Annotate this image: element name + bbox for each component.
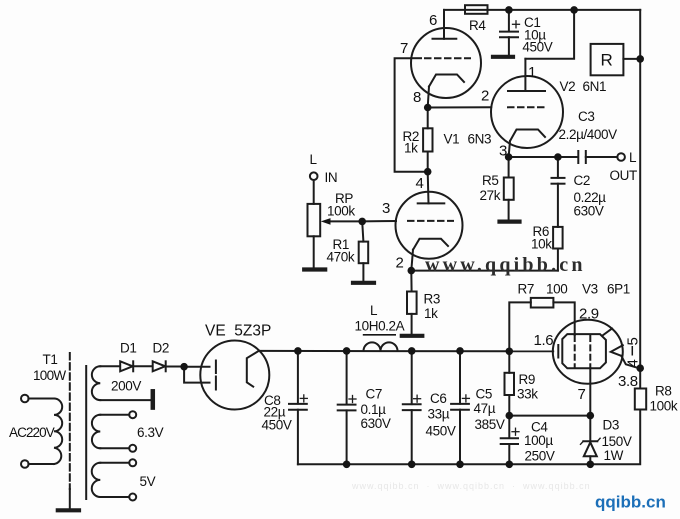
node C7 rail xyxy=(343,347,351,355)
V3 beam box xyxy=(562,334,606,368)
svg-text:100k: 100k xyxy=(327,204,355,219)
V1a plate pin 6 xyxy=(433,10,457,39)
svg-text:D2: D2 xyxy=(153,341,169,356)
node R9 rail xyxy=(506,348,514,356)
inductor L xyxy=(364,342,398,351)
svg-text:2: 2 xyxy=(481,88,489,105)
ground R3 xyxy=(402,334,423,338)
svg-text:2.9: 2.9 xyxy=(579,306,599,323)
svg-text:4: 4 xyxy=(625,360,642,368)
svg-text:3.8: 3.8 xyxy=(618,373,638,390)
svg-text:10k: 10k xyxy=(531,237,552,252)
T1 core dashed xyxy=(69,353,71,508)
V1b plate pin 4 xyxy=(418,172,445,204)
wire B+ rail xyxy=(259,350,554,352)
resistor R3 xyxy=(407,271,417,334)
capacitor C3 xyxy=(578,151,617,163)
svg-text:IN: IN xyxy=(325,170,338,185)
T1 shield line xyxy=(85,366,87,499)
T1 200V winding xyxy=(92,366,151,400)
node D3 bottom xyxy=(587,461,595,469)
wire R6 to pin2 junction xyxy=(411,270,558,272)
wire right rail xyxy=(639,10,641,389)
diode D3 zener xyxy=(581,416,601,465)
resistor R1 xyxy=(359,221,369,281)
resistor R8 xyxy=(635,389,646,410)
node C6 rail xyxy=(408,347,416,355)
node pin 2 V1b xyxy=(408,267,416,275)
node C2 top xyxy=(554,153,562,161)
svg-text:T1: T1 xyxy=(43,352,58,367)
VE filament leads xyxy=(184,361,216,390)
node pin 7 V3 xyxy=(587,412,595,420)
wire V2 plate to top rail xyxy=(525,10,574,59)
capacitor C1 xyxy=(500,10,520,55)
diode D1 xyxy=(120,361,152,371)
svg-text:150V: 150V xyxy=(602,434,632,449)
V1b cathode pin 2 xyxy=(411,239,448,271)
node diode out xyxy=(180,363,188,371)
capacitor C7 xyxy=(338,351,356,464)
T1 5V winding xyxy=(92,459,136,500)
T1 6.3V winding xyxy=(92,411,136,452)
node RP wiper xyxy=(358,218,366,226)
ground R1 xyxy=(353,281,374,285)
svg-text:450V: 450V xyxy=(426,424,456,439)
T1 primary winding xyxy=(28,399,62,465)
svg-text:6: 6 xyxy=(429,12,437,29)
ground C1 xyxy=(493,55,513,59)
node pin 3 V2 xyxy=(505,153,513,161)
V2 plate pin 1 xyxy=(508,59,545,91)
tube V1a (6N3 upper triode) xyxy=(411,28,481,98)
V3 grid pin 1.6 xyxy=(557,345,559,358)
svg-text:D3: D3 xyxy=(603,418,619,433)
diode D2 xyxy=(153,361,184,371)
capacitor C8 xyxy=(289,351,307,464)
svg-text:V3: V3 xyxy=(582,282,598,297)
node C6 bottom xyxy=(408,461,416,469)
svg-text:1W: 1W xyxy=(604,448,624,463)
wire bottom rail xyxy=(298,463,590,465)
svg-text:6N3: 6N3 xyxy=(468,132,492,147)
svg-text:4: 4 xyxy=(416,175,424,192)
svg-text:AC220V: AC220V xyxy=(9,425,55,440)
terminal L IN xyxy=(310,172,318,204)
svg-text:200V: 200V xyxy=(111,379,141,394)
svg-text:630V: 630V xyxy=(361,416,391,431)
svg-text:450V: 450V xyxy=(522,40,552,55)
svg-text:1k: 1k xyxy=(404,141,418,156)
svg-text:7: 7 xyxy=(578,386,586,403)
svg-text:7: 7 xyxy=(400,40,408,57)
svg-text:R9: R9 xyxy=(519,372,535,387)
svg-text:2.2µ/400V: 2.2µ/400V xyxy=(559,127,618,142)
capacitor C6 xyxy=(403,351,421,464)
svg-text:C7: C7 xyxy=(366,387,382,402)
V2 cathode pin 3 xyxy=(509,130,545,158)
svg-text:33µ: 33µ xyxy=(428,407,450,422)
ground RP xyxy=(304,267,325,271)
capacitor C2 xyxy=(552,157,565,227)
wire pin3 to C3 xyxy=(509,156,578,158)
tube V1b (6N3 lower triode) xyxy=(396,192,463,259)
node pin 4 xyxy=(424,168,432,176)
resistor R9 xyxy=(505,351,515,415)
svg-text:L: L xyxy=(310,152,318,167)
ground bar 200V return xyxy=(151,391,156,407)
svg-text:1: 1 xyxy=(528,64,536,81)
wire C4 junction to pin7 xyxy=(509,415,590,417)
transformer T1 primary terminals xyxy=(21,395,29,468)
transformer box R xyxy=(591,44,641,75)
node C5 bottom xyxy=(456,461,464,469)
svg-text:8: 8 xyxy=(413,89,421,106)
wire feedback pin7 to pin4 xyxy=(395,58,428,172)
svg-text:C2: C2 xyxy=(574,173,590,188)
resistor R5 xyxy=(504,157,514,220)
svg-text:33k: 33k xyxy=(517,387,538,402)
svg-text:6P1: 6P1 xyxy=(607,282,630,297)
V3 cathode pin 7 lead xyxy=(589,368,591,415)
svg-text:1k: 1k xyxy=(424,306,438,321)
ground T1 xyxy=(58,508,79,512)
svg-text:250V: 250V xyxy=(525,449,555,464)
node R box right xyxy=(636,55,644,63)
svg-text:V2: V2 xyxy=(560,79,576,94)
svg-text:100W: 100W xyxy=(33,368,66,383)
tube V3 (6P1) xyxy=(553,320,623,384)
svg-text:100k: 100k xyxy=(650,399,678,414)
svg-text:R: R xyxy=(601,51,613,70)
svg-text:D1: D1 xyxy=(120,341,136,356)
node C4 bottom xyxy=(506,461,514,469)
svg-text:2: 2 xyxy=(396,255,404,272)
svg-text:R3: R3 xyxy=(424,292,440,307)
svg-text:470k: 470k xyxy=(327,250,355,265)
svg-text:450V: 450V xyxy=(262,418,292,433)
svg-text:10H0.2A: 10H0.2A xyxy=(355,319,405,334)
node C8 rail xyxy=(294,347,302,355)
resistor R2 xyxy=(423,108,432,172)
svg-text:100: 100 xyxy=(546,282,567,297)
svg-text:3: 3 xyxy=(499,143,507,160)
svg-text:6N1: 6N1 xyxy=(583,79,607,94)
svg-text:OUT: OUT xyxy=(610,168,637,183)
node C1 top xyxy=(505,6,513,14)
svg-text:VE 5Z3P: VE 5Z3P xyxy=(205,323,271,340)
potentiometer RP xyxy=(308,204,321,268)
node V2 plate top xyxy=(570,6,578,14)
VE cathode xyxy=(247,351,259,387)
tube V2 (6N1) xyxy=(491,76,563,148)
V1a grid pin 7 xyxy=(411,57,470,59)
V1a cathode pin 8 xyxy=(428,75,464,108)
resistor R7 xyxy=(509,298,574,351)
svg-text:47µ: 47µ xyxy=(474,401,496,416)
V3 top-right diagonal xyxy=(603,329,613,336)
wire wiper to V1b grid xyxy=(362,220,396,222)
wire pin8 to V2 grid xyxy=(428,106,492,108)
svg-text:R5: R5 xyxy=(482,173,498,188)
svg-text:R4: R4 xyxy=(469,18,486,33)
wire top rail xyxy=(444,9,640,11)
V3 screen grid dashed xyxy=(574,336,576,367)
resistor R4 xyxy=(465,5,488,14)
svg-text:3: 3 xyxy=(382,200,390,217)
svg-text:www.qqibb.cn: www.qqibb.cn xyxy=(425,254,586,276)
svg-text:C6: C6 xyxy=(430,391,446,406)
svg-text:L: L xyxy=(629,150,637,165)
svg-text:27k: 27k xyxy=(480,188,501,203)
svg-text:6.3V: 6.3V xyxy=(137,425,164,440)
svg-text:V1: V1 xyxy=(444,132,460,147)
svg-text:C5: C5 xyxy=(476,387,492,402)
V3 plate xyxy=(611,345,639,368)
capacitor C4 xyxy=(501,416,519,465)
node pin 8 xyxy=(424,104,432,112)
svg-text:5V: 5V xyxy=(140,474,156,489)
svg-text:C3: C3 xyxy=(578,109,594,124)
node C5 rail xyxy=(456,347,464,355)
ground R5 xyxy=(500,220,520,224)
svg-text:1.6: 1.6 xyxy=(534,332,554,349)
capacitor C5 xyxy=(451,351,469,464)
V3 grid2 dashed xyxy=(589,336,591,367)
svg-text:0.1µ: 0.1µ xyxy=(361,402,387,417)
tick between 4 and 5 xyxy=(631,346,633,356)
V2 grid pin 2 xyxy=(508,106,548,108)
rectifier tube VE 5Z3P xyxy=(200,341,269,410)
svg-text:385V: 385V xyxy=(475,417,505,432)
terminal L OUT xyxy=(617,153,625,161)
svg-text:L: L xyxy=(370,303,378,318)
svg-text:R8: R8 xyxy=(655,384,671,399)
svg-text:R7: R7 xyxy=(518,282,534,297)
RP wiper arrow xyxy=(321,218,362,225)
svg-text:5: 5 xyxy=(625,338,642,346)
node plate V3 xyxy=(636,364,644,372)
resistor R6 xyxy=(553,227,563,271)
svg-text:100µ: 100µ xyxy=(524,433,553,448)
svg-text:630V: 630V xyxy=(574,204,604,219)
node R9 bottom xyxy=(506,412,514,420)
wire right bottom xyxy=(590,410,640,465)
svg-text:qqibb.cn: qqibb.cn xyxy=(595,493,666,512)
V1b grid pin 3 xyxy=(408,220,453,222)
underline choke xyxy=(363,334,396,336)
node C7 bottom xyxy=(343,461,351,469)
svg-text:www.qqibb.cn · www.qqibb.cn: www.qqibb.cn · www.qqibb.cn · www.qqibb.… xyxy=(351,481,591,491)
